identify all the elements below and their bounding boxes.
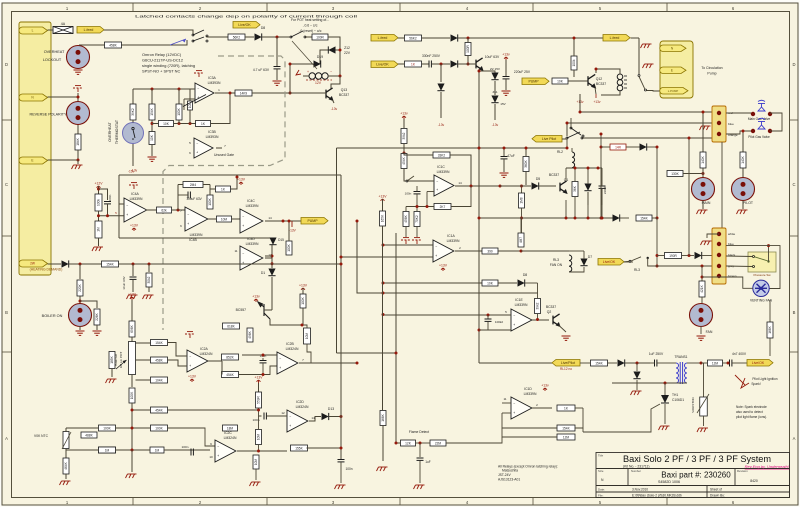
- svg-text:B: B: [5, 310, 8, 315]
- resistor 1M divider bottom: [95, 221, 102, 238]
- svg-text:E: E: [31, 159, 33, 163]
- resistor 56K2 mid: [398, 37, 404, 39]
- svg-text:−: −: [279, 357, 281, 361]
- svg-text:421K: 421K: [700, 284, 704, 292]
- svg-text:LM339N: LM339N: [246, 204, 259, 208]
- svg-text:−: −: [330, 70, 332, 74]
- wire IC4B out: [208, 218, 216, 220]
- ground below 47uF: [500, 173, 509, 177]
- svg-text:155K: 155K: [295, 446, 303, 450]
- svg-text:2M4: 2M4: [190, 183, 196, 187]
- resistor 155K: [291, 445, 308, 451]
- resistor 12M spark: [708, 360, 723, 366]
- svg-text:360K: 360K: [524, 159, 528, 167]
- svg-text:30k2: 30k2: [147, 276, 151, 283]
- diode D7: [580, 259, 587, 266]
- vertical 722 gas to fan connector: [721, 142, 723, 228]
- power +13V above 100K right: [301, 288, 305, 291]
- node wire left of 14R: [600, 134, 602, 218]
- svg-text:1M: 1M: [155, 448, 160, 452]
- svg-text:IC1A: IC1A: [447, 234, 455, 238]
- svg-text:RL12 no: RL12 no: [560, 367, 572, 371]
- svg-text:154K: 154K: [640, 216, 648, 220]
- svg-text:D15: D15: [278, 238, 284, 242]
- vertical bus 341: [340, 264, 342, 448]
- svg-text:100K: 100K: [177, 107, 181, 115]
- feedback right vertical: [340, 175, 342, 459]
- svg-text:IC2C: IC2C: [224, 431, 232, 435]
- circle OVERHEAT THERMOSTAT: [132, 144, 134, 167]
- svg-text:To Circulation: To Circulation: [701, 66, 722, 70]
- earth below PILOT: [742, 201, 744, 210]
- svg-text:1uF: 1uF: [425, 460, 431, 464]
- svg-text:184K: 184K: [76, 137, 80, 145]
- svg-text:100n: 100n: [405, 192, 412, 196]
- pump relay contact: [638, 38, 640, 74]
- svg-text:100K: 100K: [208, 197, 212, 205]
- zener Z11 15V: [491, 96, 498, 103]
- resistor 618K: [223, 323, 240, 329]
- svg-text:100K: 100K: [301, 296, 305, 304]
- svg-text:185K: 185K: [110, 355, 114, 363]
- spark arrow: [735, 375, 745, 385]
- resistor 1M8: [521, 186, 523, 193]
- feedback wires IC1D: [505, 402, 511, 404]
- svg-text:100k2: 100k2: [495, 320, 504, 324]
- resistor 10M: [217, 216, 232, 222]
- svg-text:15V: 15V: [500, 102, 506, 106]
- resistor 454K fb: [222, 372, 239, 378]
- svg-text:14K9: 14K9: [240, 91, 248, 95]
- earth left of gas connector: [700, 126, 711, 130]
- wire 357 to IC2 row: [311, 362, 357, 364]
- wire 353 row: [337, 352, 397, 354]
- svg-text:also used to detect: also used to detect: [736, 410, 763, 414]
- svg-text:100n: 100n: [345, 467, 352, 471]
- pin 2W: [19, 260, 48, 267]
- resistor 1M row right: [150, 447, 164, 453]
- flag Live Pilot: [532, 136, 562, 143]
- svg-text:12M: 12M: [712, 361, 719, 365]
- svg-text:+13V: +13V: [128, 293, 137, 297]
- svg-text:10K: 10K: [557, 79, 564, 83]
- wire IC2B out: [299, 362, 311, 364]
- svg-text:+13V: +13V: [439, 264, 448, 268]
- wire 14K9 to Q13 base: [252, 92, 326, 94]
- svg-text:D7: D7: [588, 255, 592, 259]
- pressure common up to blue rail: [768, 246, 770, 262]
- resistor 100k divider top: [95, 194, 102, 211]
- svg-text:70K2: 70K2: [415, 215, 419, 223]
- resistor 18M fb: [223, 425, 238, 431]
- svg-text:−: −: [289, 415, 291, 419]
- resistor 456K input gnd: [405, 207, 407, 212]
- resistor 140K pilot: [742, 131, 744, 152]
- wire IC2D out to D13: [309, 417, 321, 422]
- svg-text:39k2: 39k2: [536, 302, 540, 309]
- diode D15: [273, 239, 283, 241]
- plus input wire IC1C: [427, 191, 434, 193]
- svg-text:Live/OK: Live/OK: [238, 23, 251, 27]
- svg-text:L: L: [32, 29, 34, 33]
- svg-text:3.Nov.2010: 3.Nov.2010: [632, 488, 648, 492]
- svg-text:10: 10: [209, 455, 213, 459]
- svg-text:D: D: [5, 62, 8, 67]
- svg-text:Live/OK: Live/OK: [376, 63, 389, 67]
- svg-text:PUMP: PUMP: [528, 80, 539, 84]
- capacitor 100n bus bottom: [338, 460, 345, 462]
- svg-text:Unused Gate: Unused Gate: [214, 153, 234, 157]
- svg-text:G6CU-2117P-US-DC12: G6CU-2117P-US-DC12: [142, 58, 183, 63]
- svg-text:39k2: 39k2: [402, 132, 406, 139]
- rail 218 diode and 154K: [479, 217, 613, 219]
- svg-text:10M: 10M: [257, 434, 261, 441]
- svg-text:File:: File:: [598, 494, 604, 498]
- wire live pilot stub: [562, 139, 567, 148]
- flag Live/OK fan: [598, 259, 624, 266]
- svg-text:100K: 100K: [155, 426, 163, 430]
- svg-text:+13V: +13V: [254, 376, 263, 380]
- svg-text:454K: 454K: [402, 156, 406, 164]
- svg-text:10K: 10K: [163, 122, 170, 126]
- relay coil RL1 pump: [617, 74, 623, 91]
- wire resistor bottoms row: [151, 120, 153, 133]
- earth below 100n bus: [335, 485, 346, 489]
- svg-text:Live/OK: Live/OK: [752, 361, 765, 365]
- svg-text:IC2A: IC2A: [200, 347, 208, 351]
- svg-text:166K: 166K: [381, 413, 385, 421]
- relay contact RL3: [629, 260, 631, 262]
- resistor 390: [482, 248, 498, 254]
- svg-text:+: +: [242, 261, 244, 265]
- svg-text:10M: 10M: [305, 333, 309, 340]
- resistor 14K9: [235, 90, 252, 96]
- gas valve connector: [712, 106, 726, 142]
- svg-text:2W: 2W: [30, 262, 35, 266]
- svg-text:−: −: [187, 212, 189, 216]
- svg-text:TRANS1: TRANS1: [674, 355, 687, 359]
- wire D19 to vertical 290: [290, 64, 314, 93]
- pilot gas valve: [726, 131, 753, 134]
- flag Live/OK top: [233, 22, 260, 29]
- vertical bus 383: [381, 199, 385, 202]
- vertical 657 down to fan rows: [656, 218, 658, 266]
- wire rail 168: [566, 167, 602, 169]
- svg-text:Flame Detect: Flame Detect: [409, 430, 429, 434]
- svg-text:PUMP: PUMP: [307, 219, 318, 223]
- thyristor TH1 C106D1: [664, 383, 666, 397]
- svg-text:4A: 4A: [61, 22, 66, 26]
- wire black pin to pressure switch: [726, 255, 753, 258]
- diode D right of 14R: [626, 146, 640, 148]
- flag PUMP mid: [522, 78, 549, 85]
- wire 56K2 to D8: [245, 36, 254, 38]
- svg-text:(HEATING DEMAND): (HEATING DEMAND): [30, 268, 63, 272]
- earth below 185K: [111, 369, 113, 378]
- divider node wire to IC4A plus: [98, 211, 100, 221]
- earths along bottom: [377, 467, 388, 471]
- wire IC2C out: [237, 450, 287, 452]
- svg-text:1M: 1M: [97, 227, 101, 232]
- svg-text:AJS13123-A01: AJS13123-A01: [498, 478, 520, 482]
- ground below 220uF: [502, 91, 511, 95]
- svg-text:+13v: +13v: [593, 100, 600, 104]
- svg-text:D: D: [792, 62, 795, 67]
- svg-text:Pump: Pump: [707, 72, 716, 76]
- svg-text:154K: 154K: [150, 107, 154, 115]
- resistor 10M2 vertical: [258, 416, 260, 429]
- resistor 30k2 vertical: [148, 264, 150, 272]
- svg-text:1M8: 1M8: [520, 197, 524, 203]
- resistor 100R: [305, 36, 312, 38]
- resistor 1K mid: [398, 63, 404, 65]
- resistor 226K right of boiler circle: [80, 301, 97, 308]
- pin L.PUMP: [660, 88, 688, 95]
- diode D13: [322, 413, 329, 420]
- circle REVERSE POLARITY: [77, 93, 79, 134]
- svg-text:LM339N: LM339N: [524, 392, 537, 396]
- svg-text:496K: 496K: [248, 330, 252, 338]
- svg-text:D19: D19: [317, 55, 323, 59]
- resistor 165K bus top: [380, 211, 386, 226]
- svg-text:14: 14: [311, 416, 315, 420]
- svg-text:LOCKOUT: LOCKOUT: [43, 58, 62, 62]
- svg-text:10uF 63V: 10uF 63V: [122, 275, 126, 289]
- svg-text:165K: 165K: [381, 214, 385, 222]
- svg-text:696K: 696K: [130, 324, 134, 332]
- resistor 100R vertical: [189, 89, 191, 101]
- vertical 689 from pilot rail: [688, 138, 690, 256]
- svg-text:Matsushita: Matsushita: [502, 469, 518, 473]
- resistor 1M bottom: [106, 449, 108, 451]
- svg-text:E: E: [671, 68, 673, 72]
- resistor 140K main: [702, 112, 704, 152]
- main gas valve: [726, 112, 753, 114]
- zener Z12 22V: [325, 49, 340, 51]
- svg-text:D8: D8: [261, 26, 265, 30]
- wire live pilot to orange: [566, 123, 568, 136]
- svg-text:IC1D: IC1D: [524, 387, 532, 391]
- earth symbol below E: [77, 160, 79, 164]
- svg-text:LM393N: LM393N: [206, 135, 219, 139]
- gas valve relay contact: [566, 137, 568, 139]
- svg-text:OVERHEAT: OVERHEAT: [108, 121, 112, 141]
- svg-text:IC4B: IC4B: [189, 238, 197, 242]
- ground below capacitor: [276, 69, 278, 80]
- wire 154K right to bus: [119, 263, 342, 265]
- TH1 cathode earth: [664, 404, 666, 424]
- resistor 10K horizontal: [159, 121, 174, 127]
- svg-text:14: 14: [458, 181, 462, 185]
- svg-text:LM339N: LM339N: [447, 239, 460, 243]
- svg-text:12M: 12M: [563, 435, 570, 439]
- svg-text:36K: 36K: [573, 185, 577, 192]
- svg-text:−: −: [196, 142, 198, 146]
- earth below 1uF: [414, 485, 425, 489]
- resistor 220K below heating diode: [79, 264, 81, 279]
- svg-text:LM339N: LM339N: [130, 197, 143, 201]
- svg-text:+13V: +13V: [378, 195, 387, 199]
- ground below Q2: [559, 326, 566, 334]
- valve return wire: [770, 113, 782, 131]
- svg-text:47uF: 47uF: [507, 154, 515, 158]
- resistor 10K vertical mid: [149, 132, 155, 145]
- capacitor 4.7uF 63V: [276, 37, 278, 66]
- resistor 10M cap vertical: [304, 328, 311, 344]
- svg-text:REVERSE POLARITY: REVERSE POLARITY: [30, 113, 67, 117]
- svg-text:22M: 22M: [435, 441, 442, 445]
- svg-text:14: 14: [268, 216, 272, 220]
- earth at pump E: [643, 64, 654, 68]
- svg-text:BC337: BC337: [549, 173, 559, 177]
- wire blue rail: [567, 122, 715, 124]
- resistor 190R row: [665, 253, 682, 259]
- svg-text:Z12: Z12: [344, 46, 350, 50]
- IC3A input wires: [133, 88, 195, 90]
- svg-text:+: +: [279, 366, 281, 370]
- svg-text:4.7 uF 63V: 4.7 uF 63V: [253, 68, 270, 72]
- svg-text:LM339N: LM339N: [246, 242, 259, 246]
- svg-text:BOILER ON: BOILER ON: [42, 314, 63, 318]
- capacitor 100n divider: [99, 189, 108, 200]
- svg-text:IC1C: IC1C: [437, 165, 445, 169]
- svg-text:39K2: 39K2: [131, 108, 135, 116]
- wire N to reverse polarity: [48, 96, 79, 98]
- resistor 36K vertical: [572, 182, 578, 197]
- svg-text:Pilot Light Ignition: Pilot Light Ignition: [752, 377, 777, 381]
- flag PUMP out: [301, 218, 328, 225]
- resistor 10M below IC2C: [255, 455, 257, 458]
- resistor 100K right of D15: [286, 241, 292, 255]
- wire IC1E out to Q2: [532, 319, 549, 321]
- circle MAIN: [702, 168, 704, 178]
- drops to rail 218: [565, 200, 567, 218]
- resistor 1M row: [99, 447, 116, 453]
- svg-text:12K: 12K: [405, 441, 412, 445]
- svg-text:Baxi Solo 2 PF / 3 PF / 3 PF S: Baxi Solo 2 PF / 3 PF / 3 PF System: [623, 454, 771, 464]
- svg-text:A: A: [5, 436, 8, 441]
- bottom rail 465: [382, 464, 384, 466]
- wire to D20: [422, 37, 450, 39]
- TH1 gate wire: [583, 404, 660, 432]
- wires NTC rows: [66, 427, 99, 429]
- svg-text:IC2B: IC2B: [286, 342, 294, 346]
- feedback box wire top: [119, 174, 341, 176]
- svg-text:464K: 464K: [64, 461, 68, 469]
- earth below 30k2: [143, 295, 154, 299]
- wire IC4D out: [265, 258, 272, 264]
- resistor 62K: [157, 207, 172, 213]
- resistor 10K after PUMP: [552, 78, 568, 84]
- svg-text:+: +: [217, 454, 219, 458]
- svg-text:BC337: BC337: [596, 82, 606, 86]
- resistor 154K heating: [102, 261, 119, 267]
- resistor 100K col2: [302, 288, 304, 294]
- resistor 1K horizontal: [174, 123, 196, 125]
- svg-text:154K: 154K: [562, 426, 570, 430]
- earth below 10M: [250, 482, 261, 486]
- wire IC3A output to 14K9: [215, 92, 235, 94]
- wire to IC2B minus: [307, 344, 311, 363]
- svg-text:-13v: -13v: [492, 123, 499, 127]
- vertical 657 to 218 row: [656, 147, 658, 218]
- svg-text:220uF 25V: 220uF 25V: [514, 70, 531, 74]
- earth below shunt diode: [631, 391, 642, 395]
- svg-text:+: +: [187, 222, 189, 226]
- svg-text:154K: 154K: [106, 262, 114, 266]
- svg-text:33K2: 33K2: [438, 153, 446, 157]
- resistor 39k2 vertical 404: [403, 119, 405, 128]
- resistor 100K bottom: [99, 447, 116, 453]
- resistor 100R vertical rail: [467, 38, 469, 42]
- fuse 4A: [53, 27, 73, 34]
- svg-text:100K: 100K: [130, 391, 134, 399]
- svg-text:8420: 8420: [750, 479, 758, 483]
- resistor 1M vertical 521: [518, 233, 524, 247]
- wire E junction: [48, 150, 79, 160]
- svg-text:+: +: [126, 213, 128, 217]
- relay coil RL-omron: [303, 75, 309, 77]
- svg-text:10K: 10K: [487, 281, 494, 285]
- svg-text:+: +: [196, 150, 198, 154]
- svg-text:11: 11: [503, 397, 506, 401]
- svg-text:+13v: +13v: [541, 384, 549, 388]
- svg-text:D1: D1: [261, 271, 265, 275]
- ground below FAN: [700, 326, 702, 334]
- wire relay common: [207, 36, 228, 37]
- resistor 12K flame: [401, 440, 416, 446]
- svg-text:+: +: [436, 188, 438, 192]
- svg-text:SPST-NO + SPST NC: SPST-NO + SPST NC: [142, 69, 180, 74]
- svg-text:D8: D8: [523, 273, 527, 277]
- zener ZD vertical: [584, 184, 591, 191]
- earth bottom left: [60, 481, 71, 485]
- svg-text:220uF: 220uF: [603, 186, 607, 194]
- svg-text:4n7 400V: 4n7 400V: [732, 352, 747, 356]
- svg-text:LM393N: LM393N: [208, 81, 221, 85]
- varistor: [703, 363, 705, 397]
- svg-text:+: +: [242, 224, 244, 228]
- svg-text:190R: 190R: [669, 254, 677, 258]
- resistor 12M IC1D: [557, 434, 575, 440]
- svg-text:Baxi part #: 230260: Baxi part #: 230260: [661, 471, 731, 480]
- resistor 33K2 fb: [433, 152, 450, 158]
- wire coil top to Q12 collector: [596, 69, 620, 74]
- svg-text:12: 12: [281, 411, 285, 415]
- svg-text:A: A: [793, 436, 796, 441]
- zener Z2 15V: [479, 71, 495, 73]
- svg-text:FAN: FAN: [706, 330, 713, 334]
- svg-text:IC4C: IC4C: [247, 199, 255, 203]
- svg-text:-13v: -13v: [331, 107, 338, 111]
- svg-text:+13V: +13V: [299, 284, 308, 288]
- svg-text:852K: 852K: [226, 355, 234, 359]
- resistor 852K: [222, 354, 239, 360]
- wire 39K2 to thermostat: [132, 120, 134, 123]
- wire gray row into pressure switch: [726, 265, 753, 268]
- op-amp IC1A: [401, 238, 411, 244]
- input contact IC1C: [404, 179, 406, 181]
- resistor 56K2: [228, 34, 245, 40]
- svg-text:100R: 100R: [466, 44, 470, 52]
- resistor 100K vertical: [178, 89, 180, 104]
- svg-text:−: −: [242, 251, 244, 255]
- svg-text:Z11: Z11: [492, 90, 497, 94]
- svg-text:220K: 220K: [78, 283, 82, 291]
- capacitor 100n IC2C: [191, 449, 193, 456]
- svg-text:−: −: [436, 180, 438, 184]
- svg-text:−: −: [217, 445, 219, 449]
